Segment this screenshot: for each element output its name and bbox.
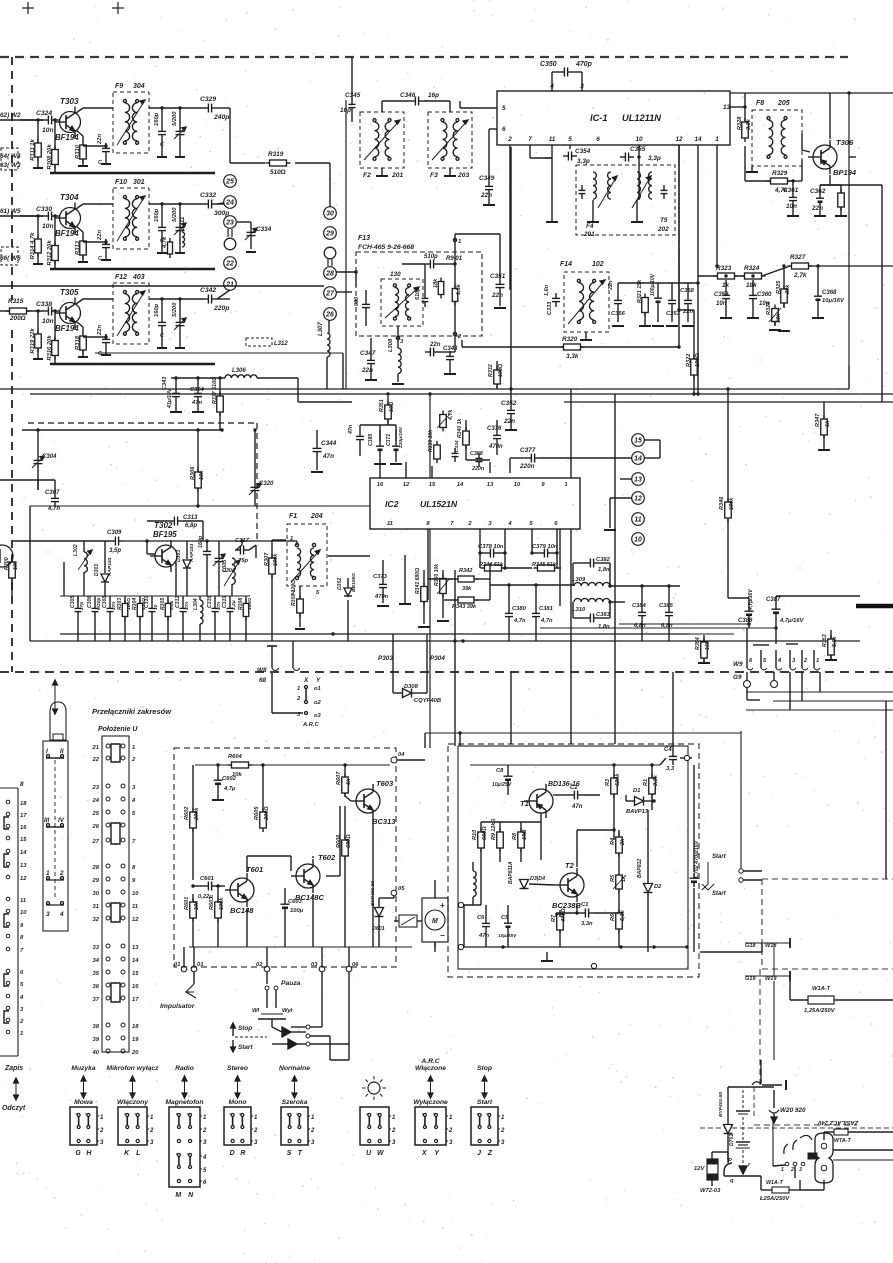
- capacitor C312: [175, 596, 190, 641]
- svg-text:C702 470μ/16V: C702 470μ/16V: [694, 840, 700, 878]
- wire: [28, 422, 257, 424]
- svg-text:2: 2: [507, 136, 512, 143]
- wire: [237, 222, 251, 227]
- transistor T303: [55, 97, 81, 142]
- IC2 pin 10: [514, 482, 521, 488]
- connector left pins: [6, 800, 27, 1037]
- svg-text:C332: C332: [200, 192, 216, 199]
- svg-text:R342: R342: [459, 568, 473, 574]
- diode D701: [718, 1087, 735, 1160]
- ground: [212, 789, 224, 800]
- svg-text:560Ω: 560Ω: [482, 826, 488, 840]
- resistor R350: [434, 563, 450, 618]
- IC U1 IC-1 UL1211N: [497, 91, 730, 145]
- svg-text:C345: C345: [345, 92, 361, 99]
- svg-text:5: 5: [568, 136, 572, 143]
- svg-text:C377: C377: [520, 447, 536, 454]
- contact 2: [296, 689, 322, 706]
- svg-text:R339 10k: R339 10k: [428, 429, 434, 452]
- wire: [556, 911, 579, 917]
- resistor R344: [479, 562, 506, 571]
- wire: [11, 330, 13, 672]
- resistor R327: [788, 254, 813, 279]
- resistor R601: [184, 894, 200, 947]
- label F13: [358, 235, 370, 242]
- ground: [825, 655, 837, 660]
- svg-text:o1: o1: [314, 686, 321, 692]
- coil L310: [572, 598, 610, 613]
- svg-text:R319: R319: [268, 151, 284, 158]
- svg-text:C304: C304: [222, 568, 235, 574]
- svg-text:38: 38: [93, 1024, 100, 1030]
- ground: [604, 529, 616, 531]
- wire: [747, 688, 760, 700]
- svg-text:Włączony: Włączony: [117, 1099, 149, 1106]
- resistor R1: [643, 763, 659, 810]
- capacitor C316: [207, 596, 222, 641]
- wire: [393, 634, 427, 693]
- wire pin7: [530, 145, 552, 158]
- wire top rail: [195, 764, 390, 766]
- wire: [820, 175, 830, 185]
- wire v774: [773, 981, 775, 1060]
- svg-text:3: 3: [46, 911, 50, 918]
- ground: [587, 200, 599, 222]
- svg-text:R308 20k: R308 20k: [47, 144, 53, 170]
- pin circle: [771, 672, 778, 688]
- svg-text:1k: 1k: [825, 420, 831, 427]
- svg-text:C338: C338: [36, 301, 52, 308]
- spark cap2: [736, 1117, 750, 1148]
- svg-text:R351: R351: [379, 399, 385, 412]
- terminal G19: [745, 971, 790, 982]
- svg-text:BYP401-50: BYP401-50: [718, 1092, 724, 1117]
- ground: [720, 304, 732, 318]
- small rect: [808, 1153, 817, 1159]
- capacitor C307: [45, 480, 60, 512]
- wire vert x571: [570, 389, 572, 672]
- fuse WIA-T: [790, 996, 893, 1004]
- resistor R304: [132, 596, 147, 641]
- svg-text:26: 26: [92, 824, 100, 830]
- svg-text:100Ω: 100Ω: [247, 598, 253, 610]
- svg-text:D301: D301: [94, 564, 100, 576]
- coil F1b: [310, 543, 315, 579]
- label Start: [477, 1099, 493, 1106]
- svg-text:201: 201: [391, 172, 403, 179]
- label WIA-T top: [812, 986, 831, 992]
- pin 3: [580, 83, 584, 90]
- connector 40pin rnums: [131, 745, 139, 1056]
- svg-text:100Ω: 100Ω: [695, 353, 701, 367]
- wire: [478, 529, 558, 555]
- filter F4/T5: [576, 165, 675, 235]
- svg-text:47n: 47n: [191, 400, 202, 406]
- switch GH: [70, 1107, 104, 1157]
- wire caps bus: [618, 276, 717, 285]
- wire: [0, 215, 43, 217]
- svg-text:10k: 10k: [13, 560, 19, 570]
- label FCH-465: [358, 244, 414, 251]
- svg-text:7: 7: [528, 136, 532, 143]
- svg-text:15: 15: [20, 837, 27, 843]
- resistor R7: [551, 908, 567, 947]
- svg-text:01: 01: [174, 962, 180, 968]
- ground: [769, 303, 790, 331]
- capacitor C387: [766, 597, 805, 624]
- connector left box: [0, 788, 18, 1056]
- svg-text:BAP812: BAP812: [637, 859, 643, 878]
- contact 1: [297, 686, 321, 693]
- capacitor C364: [190, 387, 205, 406]
- svg-text:L304: L304: [193, 598, 199, 610]
- svg-text:22n: 22n: [97, 230, 103, 241]
- svg-text:C329: C329: [200, 96, 216, 103]
- svg-text:C343: C343: [162, 376, 168, 390]
- capacitor C702: [690, 765, 701, 952]
- svg-text:R345 51k: R345 51k: [532, 562, 557, 568]
- svg-text:1,6n: 1,6n: [544, 284, 550, 296]
- svg-text:F9: F9: [115, 83, 123, 90]
- svg-text:R601: R601: [184, 897, 190, 910]
- connector bracket L: [4, 817, 9, 829]
- label W8: [257, 667, 267, 684]
- wire stage mid rail: [60, 595, 250, 597]
- svg-text:2k: 2k: [620, 838, 626, 846]
- connector W20: [769, 1090, 779, 1123]
- capacitor 22n: [97, 230, 110, 262]
- capacitor C317: [235, 538, 256, 564]
- capacitor 160p: [154, 303, 166, 339]
- svg-text:C344: C344: [321, 440, 337, 447]
- resistor R324: [741, 265, 766, 289]
- svg-text:C342: C342: [200, 287, 216, 294]
- capacitor C343: [162, 376, 180, 409]
- wire: [712, 1152, 772, 1190]
- svg-text:10n: 10n: [716, 301, 727, 307]
- ground: [157, 299, 167, 348]
- ground: [365, 369, 377, 380]
- svg-text:4,7n: 4,7n: [540, 618, 553, 624]
- node 23: [224, 216, 237, 229]
- svg-text:R343 39k: R343 39k: [452, 604, 477, 610]
- svg-text:68: 68: [259, 677, 267, 684]
- svg-text:1: 1: [132, 745, 135, 751]
- svg-text:F10: F10: [115, 179, 127, 186]
- svg-text:R325: R325: [776, 280, 782, 294]
- svg-text:J: J: [477, 1150, 481, 1157]
- terminal 00: [174, 947, 187, 972]
- ground: [698, 658, 710, 663]
- svg-text:10: 10: [153, 604, 159, 610]
- svg-text:R327: R327: [790, 254, 806, 261]
- svg-text:06: 06: [352, 962, 359, 968]
- pin 1: [290, 536, 293, 542]
- wire: [22, 428, 224, 431]
- svg-text:C349: C349: [479, 175, 495, 182]
- svg-text:F3: F3: [430, 172, 438, 179]
- svg-text:Stop: Stop: [477, 1065, 492, 1072]
- resistor R340: [457, 418, 469, 460]
- resistor R321: [637, 279, 648, 317]
- svg-text:C385: C385: [368, 434, 374, 446]
- resistor R308: [291, 580, 303, 627]
- coil L306: [225, 368, 257, 378]
- ground: [157, 108, 167, 157]
- svg-text:T2: T2: [565, 861, 575, 870]
- wire: [614, 672, 616, 744]
- resistor R607: [336, 763, 352, 797]
- capacitor C365: [348, 424, 364, 456]
- svg-text:C355: C355: [630, 146, 646, 153]
- capacitor C313: [147, 515, 203, 541]
- connector box: [1, 247, 18, 265]
- svg-text:14: 14: [694, 136, 702, 143]
- svg-text:10n: 10n: [42, 318, 54, 325]
- coil L: [473, 862, 476, 905]
- diode D301: [94, 541, 113, 596]
- resistor R606: [336, 806, 352, 947]
- capacitor small: [661, 185, 668, 199]
- svg-text:C360: C360: [757, 292, 772, 298]
- resistor R308 20k: [47, 144, 58, 170]
- svg-text:R602: R602: [184, 806, 190, 820]
- svg-text:470n: 470n: [374, 594, 389, 600]
- diode D308: [403, 684, 442, 704]
- capacitor C383: [585, 612, 611, 630]
- connector 40pin pins: [92, 744, 125, 1056]
- svg-text:BF194: BF194: [55, 324, 79, 333]
- ground: [175, 204, 185, 253]
- capacitor 160p: [154, 208, 166, 244]
- node 13: [632, 473, 645, 486]
- wire base divider: [36, 118, 60, 149]
- resistor R6: [610, 889, 626, 947]
- svg-text:02: 02: [256, 962, 263, 968]
- capacitor 160pb: [198, 535, 211, 596]
- svg-text:22n: 22n: [811, 205, 823, 212]
- label Wyłączone: [413, 1099, 448, 1106]
- svg-text:22n: 22n: [491, 292, 503, 299]
- transistor T302: [150, 521, 177, 572]
- svg-text:5/200: 5/200: [172, 302, 178, 317]
- switch Wl: [252, 986, 293, 1027]
- svg-text:BP194: BP194: [833, 168, 857, 177]
- label Pauza: [281, 980, 301, 987]
- connector bracket L: [4, 974, 9, 986]
- svg-text:L311: L311: [180, 216, 186, 230]
- wire: [745, 146, 802, 181]
- resistor R325: [776, 280, 791, 307]
- capacitor C305: [70, 596, 85, 641]
- coil F1a: [295, 543, 300, 579]
- ground: [295, 628, 305, 630]
- capacitor C8: [492, 765, 513, 795]
- svg-text:21: 21: [92, 745, 99, 751]
- svg-text:1: 1: [297, 686, 300, 692]
- svg-text:61) W5: 61) W5: [0, 208, 21, 215]
- svg-text:L302: L302: [73, 544, 79, 556]
- svg-text:o3: o3: [314, 713, 322, 719]
- svg-text:1: 1: [20, 1031, 23, 1037]
- capacitor 680: [354, 290, 370, 326]
- svg-text:100k: 100k: [273, 553, 279, 566]
- ground: [639, 313, 651, 326]
- svg-text:5,1k: 5,1k: [620, 909, 626, 921]
- pin 13: [723, 104, 731, 111]
- svg-text:T302: T302: [154, 521, 173, 530]
- capacitor 510p: [424, 254, 439, 269]
- svg-text:4,7n: 4,7n: [47, 506, 60, 512]
- label F4 201: [583, 223, 595, 238]
- label Start: [231, 1040, 254, 1052]
- resistor R300: [4, 556, 19, 596]
- resistor R4: [610, 830, 626, 871]
- wire: [95, 353, 343, 389]
- label W6: [0, 255, 21, 262]
- svg-text:G19: G19: [745, 976, 756, 982]
- svg-text:30: 30: [326, 210, 334, 217]
- coil L308: [388, 338, 401, 382]
- svg-text:C601: C601: [200, 876, 214, 882]
- svg-text:240p: 240p: [213, 114, 229, 121]
- wire: [885, 701, 887, 879]
- coil L305: [222, 545, 256, 596]
- svg-text:L312: L312: [274, 341, 288, 347]
- ground: [666, 325, 678, 327]
- wire: [0, 480, 55, 490]
- wire: [672, 672, 674, 744]
- capacitor trimmer: [172, 207, 186, 236]
- svg-text:2: 2: [202, 1128, 207, 1134]
- capacitor C381: [532, 585, 553, 641]
- svg-text:BF194: BF194: [55, 229, 79, 238]
- wire: [489, 129, 497, 181]
- svg-text:510p: 510p: [424, 254, 438, 260]
- svg-text:C359: C359: [714, 292, 729, 298]
- svg-text:1k: 1k: [346, 778, 352, 785]
- capacitor C377: [519, 447, 540, 470]
- wire pin14: [696, 145, 699, 396]
- Tbar: [753, 644, 798, 645]
- wire: [773, 943, 775, 976]
- wire: [253, 428, 256, 470]
- label Stop: [231, 1023, 253, 1036]
- svg-text:C308: C308: [102, 596, 108, 608]
- label Stereo: [227, 1065, 248, 1072]
- capacitor C379: [532, 544, 558, 558]
- svg-text:12: 12: [403, 482, 410, 488]
- coil L311: [180, 216, 186, 247]
- resistor R307: [264, 552, 279, 578]
- svg-text:18k: 18k: [746, 282, 757, 289]
- transformer F9 304: [113, 83, 149, 153]
- svg-text:3,3p: 3,3p: [577, 158, 590, 165]
- svg-text:37: 37: [93, 997, 100, 1003]
- capacitor C350: [540, 61, 593, 91]
- svg-text:100k: 100k: [729, 497, 735, 510]
- arrow: [14, 1078, 19, 1100]
- triangle1: [282, 1025, 310, 1038]
- svg-text:4,7μ/16V: 4,7μ/16V: [779, 618, 805, 624]
- svg-text:1: 1: [715, 136, 719, 143]
- svg-text:Z: Z: [487, 1150, 493, 1157]
- svg-text:WTA-T: WTA-T: [834, 1138, 852, 1144]
- pin 6: [596, 136, 600, 143]
- wire bottom rail2: [464, 905, 689, 949]
- svg-text:13: 13: [634, 476, 642, 483]
- capacitor C388: [470, 451, 485, 472]
- node 30: [324, 207, 337, 220]
- svg-text:16: 16: [377, 482, 384, 488]
- svg-text:R329: R329: [772, 170, 788, 177]
- wire emitter: [76, 130, 83, 142]
- wire rail2: [470, 764, 660, 766]
- svg-text:10k: 10k: [776, 313, 782, 323]
- svg-text:C313: C313: [183, 515, 198, 521]
- wire: [272, 540, 286, 641]
- svg-text:R314 4,7k: R314 4,7k: [30, 232, 36, 260]
- wire: [11, 57, 13, 300]
- svg-text:Wyłączone: Wyłączone: [413, 1099, 448, 1106]
- svg-text:4,7k: 4,7k: [448, 409, 454, 421]
- svg-text:R318: R318: [75, 335, 81, 350]
- wire: [345, 796, 351, 801]
- label Szeroka: [282, 1099, 308, 1106]
- transistor T301: [0, 545, 13, 567]
- label r: [748, 1162, 751, 1168]
- svg-text:C351: C351: [490, 273, 506, 280]
- node 29: [324, 227, 337, 240]
- capacitor C320: [249, 470, 274, 506]
- ground: [747, 304, 759, 318]
- svg-text:Mikrofon wyłącz: Mikrofon wyłącz: [107, 1065, 160, 1072]
- ground bar heavy: [50, 363, 215, 366]
- capacitor 100u: [650, 273, 662, 322]
- wire pin11: [551, 145, 553, 222]
- svg-text:47n: 47n: [571, 804, 583, 810]
- svg-text:F14: F14: [560, 261, 572, 268]
- svg-text:28: 28: [92, 865, 100, 871]
- svg-text:3,3k: 3,3k: [746, 118, 752, 130]
- wire: [22, 2, 34, 14]
- svg-text:T303: T303: [60, 97, 79, 106]
- svg-text:2,7k: 2,7k: [793, 272, 807, 279]
- resistor R312 20k: [47, 240, 58, 266]
- pin 14: [694, 136, 702, 143]
- svg-text:11: 11: [387, 521, 393, 527]
- resistor R311 1k: [30, 138, 41, 161]
- capacitor C342: [200, 287, 229, 312]
- ground: [787, 206, 799, 216]
- svg-text:29: 29: [325, 230, 334, 237]
- svg-text:26: 26: [325, 311, 334, 318]
- label W2: [0, 112, 21, 119]
- wire base divider: [36, 214, 60, 245]
- diode D601: [370, 881, 385, 947]
- svg-text:L309: L309: [572, 577, 586, 583]
- resistor R338: [437, 409, 454, 432]
- start circles: [739, 869, 762, 882]
- svg-text:P304: P304: [430, 655, 445, 662]
- svg-text:304: 304: [133, 83, 145, 90]
- wire: [860, 393, 893, 395]
- connector bracket: [111, 983, 120, 1002]
- ground: [682, 325, 694, 327]
- wire: [64, 562, 176, 603]
- svg-text:202: 202: [657, 226, 669, 233]
- svg-text:Start: Start: [712, 854, 727, 860]
